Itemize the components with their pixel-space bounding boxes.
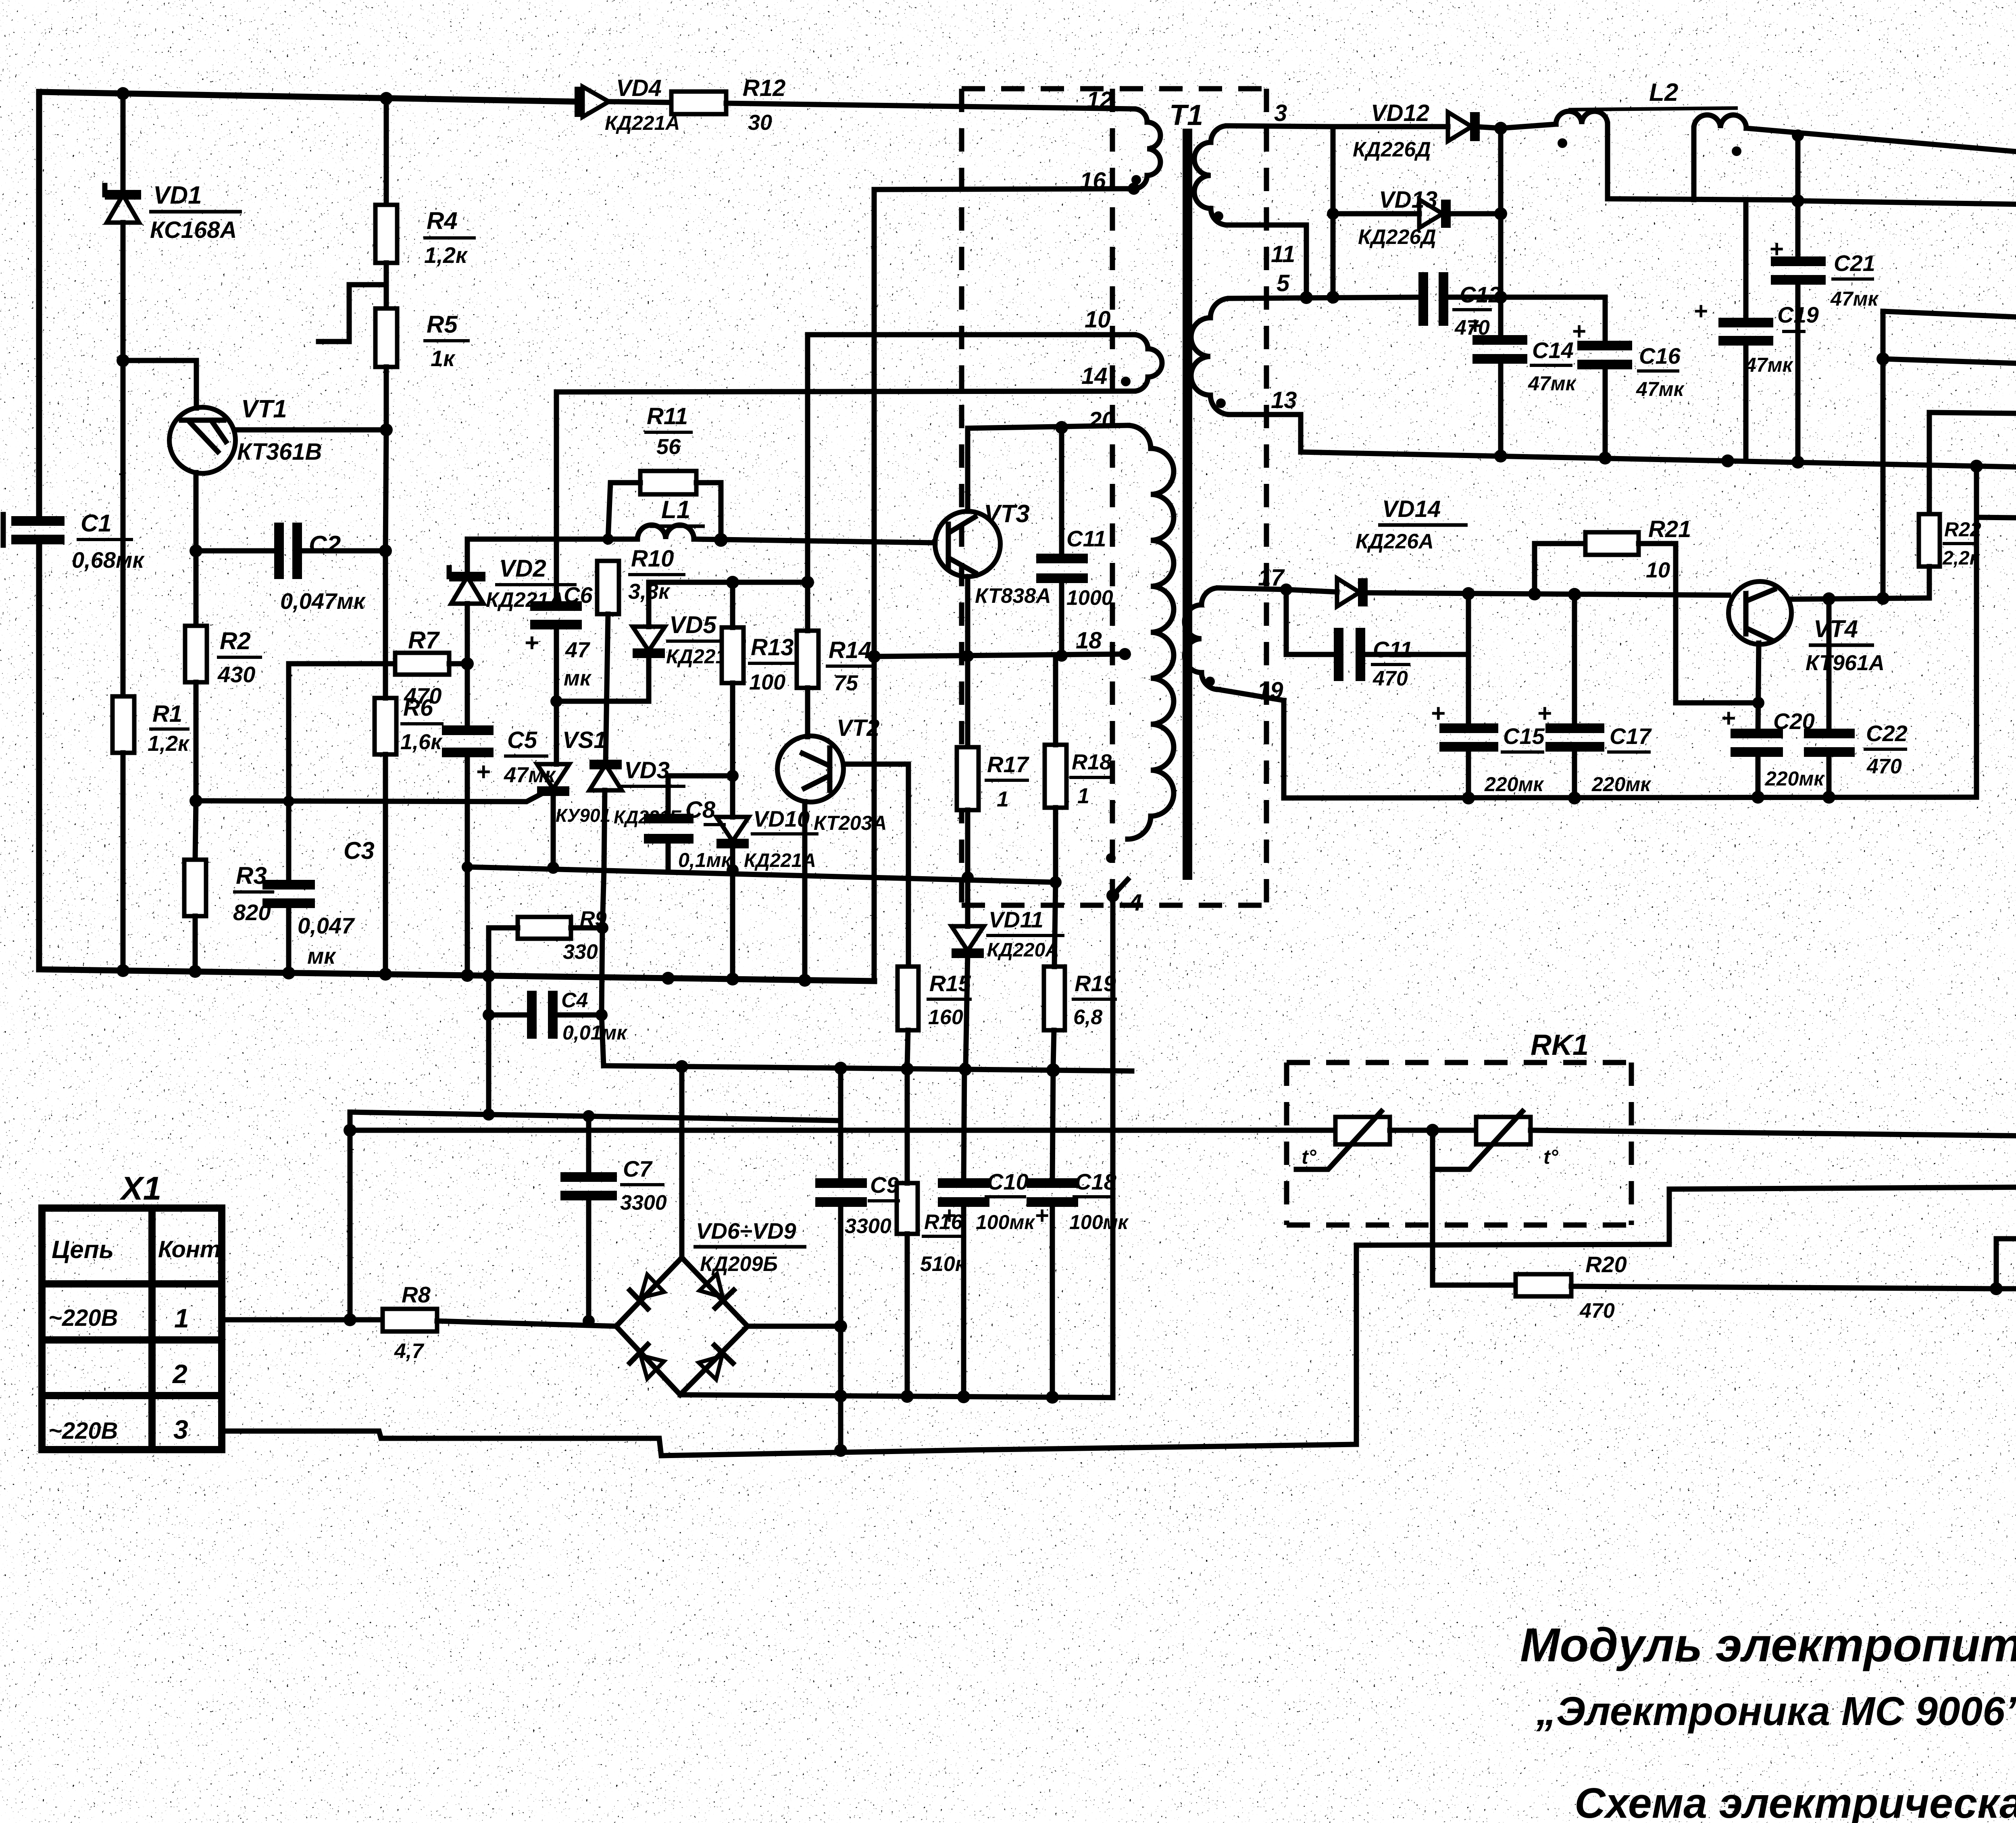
svg-text:56: 56 xyxy=(656,435,681,459)
transistor VT3 KT838A xyxy=(935,500,1051,608)
capacitor C10 100mk xyxy=(938,1066,1035,1395)
wire R5 to VT1 emitter node xyxy=(384,367,389,430)
capacitor C6 47mk xyxy=(524,582,593,764)
capacitor C2 0,047mk xyxy=(196,523,385,614)
svg-text:30: 30 xyxy=(748,110,772,135)
svg-text:VD1: VD1 xyxy=(153,181,202,209)
RK1 dashed box xyxy=(1287,1029,1631,1225)
capacitor C21 47mk xyxy=(1769,129,1879,462)
resistor R6 1,6k xyxy=(375,551,444,970)
svg-text:L2: L2 xyxy=(1649,79,1678,106)
capacitor C1 xyxy=(3,510,145,573)
node VD1 base junction xyxy=(117,354,129,367)
svg-text:R18: R18 xyxy=(1072,750,1112,774)
svg-text:С11: С11 xyxy=(1373,637,1413,662)
svg-text:VT1: VT1 xyxy=(241,395,287,423)
wire VT4 emitter column xyxy=(1758,643,1759,733)
svg-text:1000: 1000 xyxy=(1066,586,1113,610)
diode VD4 xyxy=(579,75,680,134)
svg-text:Конт.: Конт. xyxy=(158,1236,227,1263)
svg-text:R3: R3 xyxy=(236,862,267,889)
svg-text:VD12: VD12 xyxy=(1371,100,1429,126)
svg-text:6,8: 6,8 xyxy=(1073,1006,1102,1029)
wire H1 sloped common row xyxy=(467,867,1056,882)
svg-text:КТ838А: КТ838А xyxy=(975,584,1051,608)
node R2 bottom gate row xyxy=(190,794,202,807)
svg-text:R11: R11 xyxy=(647,403,688,429)
svg-text:~220В: ~220В xyxy=(48,1418,118,1444)
svg-text:1,6к: 1,6к xyxy=(400,730,443,754)
svg-text:100: 100 xyxy=(749,670,785,694)
thermistor RK1a xyxy=(350,1111,1390,1169)
svg-text:L1: L1 xyxy=(661,496,690,524)
wire caps bottom row xyxy=(680,1395,1113,1398)
resistor R11 56 xyxy=(608,403,721,540)
wire X1 pin1 column xyxy=(348,1112,353,1320)
winding 17-19 secondary xyxy=(1185,565,1286,704)
svg-text:3: 3 xyxy=(1274,100,1287,126)
svg-text:t°: t° xyxy=(1302,1146,1317,1168)
wire pin10 column xyxy=(805,335,810,582)
svg-text:100мк: 100мк xyxy=(1069,1211,1129,1233)
svg-text:0,01мк: 0,01мк xyxy=(562,1021,628,1044)
svg-text:R19: R19 xyxy=(1075,971,1116,996)
resistor R10 3,3k xyxy=(597,533,685,763)
svg-text:47мк: 47мк xyxy=(1636,378,1685,400)
svg-text:13: 13 xyxy=(1271,387,1297,413)
transistor VT4 KT961A xyxy=(1729,581,1885,675)
wire pin4/5 column xyxy=(1881,311,1886,598)
svg-text:47: 47 xyxy=(565,638,591,662)
capacitor C7 3300 xyxy=(560,1116,667,1327)
svg-text:VD11: VD11 xyxy=(989,907,1043,932)
svg-text:КТ961А: КТ961А xyxy=(1806,651,1885,675)
capacitor C9 3300 xyxy=(815,1068,900,1326)
inductor L2 xyxy=(1501,79,2016,200)
resistor R9 330 xyxy=(489,907,607,976)
svg-text:С14: С14 xyxy=(1532,338,1574,363)
svg-text:220мк: 220мк xyxy=(1484,773,1544,796)
capacitor C15 220mk xyxy=(1431,594,1545,798)
capacitor C8 0,1mk xyxy=(644,776,733,872)
svg-text:+: + xyxy=(1537,700,1552,727)
svg-text:0,68мк: 0,68мк xyxy=(72,547,145,573)
svg-text:+: + xyxy=(1572,318,1586,345)
resistor R8 4,7 xyxy=(222,1282,616,1363)
svg-text:С4: С4 xyxy=(561,989,588,1012)
svg-text:470: 470 xyxy=(1372,667,1408,690)
svg-text:t°: t° xyxy=(1543,1146,1559,1168)
svg-text:КД221А: КД221А xyxy=(605,112,680,134)
resistor R15 160 xyxy=(898,967,972,1067)
svg-text:С22: С22 xyxy=(1866,721,1908,746)
wire top rail xyxy=(39,92,577,102)
svg-text:VD10: VD10 xyxy=(753,806,810,831)
svg-text:1к: 1к xyxy=(431,346,456,371)
wire down to C2 node xyxy=(385,430,386,551)
svg-text:С6: С6 xyxy=(564,582,593,608)
svg-text:VT3: VT3 xyxy=(984,500,1030,528)
winding 5-13 secondary xyxy=(1191,270,1422,452)
wire X3 pin3/pin4 jog xyxy=(1990,1282,2003,1295)
svg-text:430: 430 xyxy=(217,662,255,687)
svg-text:VD13: VD13 xyxy=(1379,187,1437,213)
svg-text:R8: R8 xyxy=(402,1282,431,1307)
svg-text:КД226А: КД226А xyxy=(1356,530,1434,553)
svg-text:+: + xyxy=(476,758,490,786)
wire pin7/pin8 xyxy=(1974,466,1979,797)
svg-text:0,047мк: 0,047мк xyxy=(280,588,366,614)
capacitor C3 0,047mk xyxy=(262,664,375,970)
wire VT3 collector to pin20 xyxy=(968,425,1128,511)
svg-text:R20: R20 xyxy=(1585,1252,1627,1277)
svg-text:10: 10 xyxy=(1085,306,1111,333)
resistor R5 1k xyxy=(375,308,470,371)
svg-text:4: 4 xyxy=(1129,890,1142,916)
svg-text:R1: R1 xyxy=(152,701,182,727)
svg-text:+: + xyxy=(1431,700,1445,727)
svg-text:220мк: 220мк xyxy=(1765,767,1825,790)
svg-text:R5: R5 xyxy=(427,311,458,338)
thyristor VS1 xyxy=(537,727,610,868)
wire pin14 / C6 column xyxy=(554,392,559,606)
svg-text:2: 2 xyxy=(172,1359,187,1389)
svg-text:С8: С8 xyxy=(685,797,716,823)
wire bottom common row xyxy=(1284,700,1976,798)
svg-text:1: 1 xyxy=(1077,784,1089,808)
svg-text:мк: мк xyxy=(307,943,336,969)
wire R9 C4 column xyxy=(602,869,604,1066)
svg-text:Модуль электропитания: Модуль электропитания xyxy=(1520,1619,2016,1672)
svg-text:10: 10 xyxy=(1646,558,1670,582)
wire pin2 line xyxy=(1798,201,2016,205)
svg-text:С16: С16 xyxy=(1639,343,1681,369)
svg-text:С5: С5 xyxy=(507,727,537,753)
svg-text:100мк: 100мк xyxy=(976,1211,1035,1233)
diode VD5 xyxy=(556,582,746,701)
svg-text:75: 75 xyxy=(834,671,858,695)
diode VD2 zener xyxy=(449,539,577,664)
capacitor C20 220mk xyxy=(1721,704,1825,797)
svg-text:С2: С2 xyxy=(309,531,341,559)
svg-text:3300: 3300 xyxy=(620,1191,667,1215)
svg-text:С12: С12 xyxy=(1460,282,1501,307)
svg-text:С11: С11 xyxy=(1066,526,1106,551)
svg-text:330: 330 xyxy=(563,940,598,964)
svg-text:мк: мк xyxy=(564,666,592,690)
svg-text:18: 18 xyxy=(1076,627,1102,654)
svg-text:+: + xyxy=(1721,704,1735,732)
inductor L1 xyxy=(637,496,705,539)
resistor R3 820 xyxy=(184,801,274,970)
winding 20-18-4 xyxy=(1088,407,1174,1398)
transformer T1 dashed box xyxy=(962,89,1266,905)
svg-text:1: 1 xyxy=(174,1303,189,1333)
wire X1 pin3 line xyxy=(222,1431,1356,1456)
svg-text:VT4: VT4 xyxy=(1814,615,1858,642)
svg-text:VD6÷VD9: VD6÷VD9 xyxy=(696,1218,796,1244)
capacitor C22 470 xyxy=(1804,599,1908,797)
svg-text:VS1: VS1 xyxy=(562,727,607,753)
svg-text:20: 20 xyxy=(1088,407,1115,433)
svg-text:1: 1 xyxy=(997,787,1009,811)
resistor R7 470 xyxy=(289,627,467,708)
svg-text:КД226Д: КД226Д xyxy=(1353,138,1431,161)
svg-text:КД226Д: КД226Д xyxy=(1358,225,1436,249)
svg-text:R2: R2 xyxy=(220,627,251,654)
winding 10-14 xyxy=(556,306,1162,392)
wire left wall lower xyxy=(36,540,42,969)
svg-text:470: 470 xyxy=(1866,755,1902,778)
T1 core xyxy=(1183,129,1192,880)
svg-text:0,1мк: 0,1мк xyxy=(678,849,732,871)
svg-text:С21: С21 xyxy=(1834,250,1875,276)
svg-text:КД220А: КД220А xyxy=(987,940,1059,961)
diode VD10 xyxy=(716,806,818,980)
capacitor C17 220mk xyxy=(1537,594,1652,798)
svg-text:R10: R10 xyxy=(631,546,674,572)
wire VD1 branch vertical xyxy=(121,94,126,192)
diode VD11 xyxy=(952,907,1064,1066)
svg-text:R4: R4 xyxy=(427,207,458,234)
svg-text:R7: R7 xyxy=(408,627,440,654)
svg-text:+: + xyxy=(942,1202,956,1229)
resistor R21 10 xyxy=(1535,516,1759,703)
svg-text:Цепь: Цепь xyxy=(52,1236,114,1264)
wire rail B xyxy=(604,1066,1132,1071)
wire R4 branch from top rail xyxy=(380,92,393,105)
svg-text:R12: R12 xyxy=(743,75,785,101)
wire cathode column xyxy=(1498,128,1504,339)
svg-text:КД209Б: КД209Б xyxy=(700,1252,778,1276)
svg-text:14: 14 xyxy=(1081,363,1108,389)
svg-text:5: 5 xyxy=(1277,270,1290,296)
wire main line to VT3 base xyxy=(467,537,637,542)
svg-text:+: + xyxy=(1693,298,1708,325)
wire between R4 R5 with tap xyxy=(384,263,389,308)
resistor R12 30 xyxy=(671,75,1134,135)
wire to VT1 base xyxy=(123,360,196,408)
svg-text:С9: С9 xyxy=(870,1172,899,1198)
svg-text:R14: R14 xyxy=(829,637,871,663)
svg-text:47мк: 47мк xyxy=(1745,354,1794,376)
svg-text:+: + xyxy=(1769,235,1783,263)
svg-text:+: + xyxy=(1035,1202,1049,1229)
diode VD14 xyxy=(1280,496,1729,606)
svg-text:+: + xyxy=(524,629,539,657)
svg-text:Схема электрическая принципи: Схема электрическая принципиальная xyxy=(1574,1779,2016,1823)
svg-text:1,2к: 1,2к xyxy=(148,731,190,756)
diode VD1 zener КС168А xyxy=(105,181,242,360)
capacitor C16 47mk xyxy=(1572,297,1685,458)
capacitor C14 47mk xyxy=(1468,312,1577,456)
thermistor RK1b xyxy=(1390,1111,2016,1169)
capacitor C4 0,01mk xyxy=(483,976,628,1112)
svg-text:VD2: VD2 xyxy=(499,555,546,582)
svg-text:С10: С10 xyxy=(987,1169,1029,1194)
svg-text:R13: R13 xyxy=(751,634,793,660)
svg-text:VD4: VD4 xyxy=(616,75,662,101)
wire up to X3 pin2 xyxy=(1356,1187,2016,1444)
svg-text:С17: С17 xyxy=(1610,723,1652,749)
svg-text:4,7: 4,7 xyxy=(394,1340,424,1363)
svg-text:С3: С3 xyxy=(344,837,375,864)
node VD12 anode col xyxy=(1331,127,1336,297)
wire bridge right to C9 xyxy=(748,1324,841,1329)
diode VD13 xyxy=(1333,187,1501,249)
svg-text:+: + xyxy=(1468,312,1482,339)
wire top feed row 2758 xyxy=(350,1112,841,1121)
wire pin13 row xyxy=(1301,452,2016,468)
capacitor C11 osc 1000 xyxy=(1036,427,1113,656)
wire 18-row xyxy=(872,190,877,981)
svg-text:VD14: VD14 xyxy=(1382,496,1441,522)
resistor R1 1,2k xyxy=(112,696,190,970)
capacitor C19 47mk xyxy=(1693,200,1819,461)
wire 737 row to C16 xyxy=(1501,295,1605,300)
svg-text:510к: 510к xyxy=(920,1252,967,1276)
svg-text:160: 160 xyxy=(928,1006,963,1029)
capacitor C5 47mk electrolytic xyxy=(442,664,556,970)
svg-text:~220В: ~220В xyxy=(48,1305,118,1331)
diode VD3 xyxy=(589,757,685,868)
svg-text:R6: R6 xyxy=(403,695,433,721)
capacitor C13 470 xyxy=(1286,590,1468,690)
capacitor C18 100mk xyxy=(1027,1067,1129,1395)
transistor VT1 KT361V xyxy=(169,395,385,551)
svg-text:VD5: VD5 xyxy=(669,611,717,638)
transistor VT2 KT203 xyxy=(777,715,908,981)
resistor R14 75 xyxy=(797,582,874,737)
resistor R19 6,8 xyxy=(1044,882,1117,1067)
wire VD1 line to R1 xyxy=(121,360,126,696)
resistor R20 470 xyxy=(1516,1252,1996,1323)
svg-text:3300: 3300 xyxy=(845,1215,891,1238)
svg-text:RK1: RK1 xyxy=(1531,1029,1589,1061)
wire row 1444 xyxy=(649,580,808,585)
resistor R22 2,2k xyxy=(1919,413,2016,598)
svg-text:12: 12 xyxy=(1087,87,1113,113)
svg-text:КТ361В: КТ361В xyxy=(237,439,322,465)
svg-text:47мк: 47мк xyxy=(1528,372,1577,395)
svg-text:47мк: 47мк xyxy=(1830,288,1879,310)
svg-text:С1: С1 xyxy=(81,510,112,537)
diode VD12 xyxy=(1333,100,1501,161)
svg-text:КС168А: КС168А xyxy=(150,217,237,243)
svg-text:„Электроника МС 9006”: „Электроника МС 9006” xyxy=(1536,1689,2016,1734)
wire VT3 emitter / R17 column xyxy=(965,577,971,747)
wire thyristor gate row xyxy=(196,792,545,802)
resistor R18 1 xyxy=(1045,656,1112,882)
svg-text:470: 470 xyxy=(1579,1299,1615,1323)
svg-text:1,2к: 1,2к xyxy=(424,242,468,268)
svg-text:11: 11 xyxy=(1271,241,1295,267)
capacitor C12 470 xyxy=(1423,272,1501,340)
node top-left VD1 junction xyxy=(117,87,129,100)
svg-text:220мк: 220мк xyxy=(1591,773,1652,796)
wire rail A xyxy=(39,969,874,981)
bridge rectifier VD6-VD9 xyxy=(616,1067,806,1395)
svg-text:С7: С7 xyxy=(623,1156,653,1181)
svg-text:X1: X1 xyxy=(119,1170,161,1207)
svg-text:R17: R17 xyxy=(987,752,1030,777)
svg-text:Т1: Т1 xyxy=(1169,99,1203,131)
wire left wall upper xyxy=(36,92,42,521)
svg-text:0,047: 0,047 xyxy=(298,913,355,938)
winding 3-11 secondary xyxy=(1194,100,1333,292)
wire VT4 collector row xyxy=(1789,598,1929,599)
resistor R16 510k xyxy=(897,1067,967,1395)
resistor R13 100 xyxy=(722,582,796,817)
resistor R2 430 xyxy=(185,551,262,801)
svg-text:3: 3 xyxy=(173,1415,188,1444)
svg-text:R21: R21 xyxy=(1648,516,1691,542)
winding 12-16 xyxy=(874,87,1160,195)
svg-text:VD3: VD3 xyxy=(624,757,670,783)
svg-text:R9: R9 xyxy=(580,907,607,931)
resistor R17 1 xyxy=(957,747,1030,926)
wire thermistor junction down to R20 row xyxy=(1433,1130,1516,1285)
resistor R4 1,2k xyxy=(375,205,476,268)
